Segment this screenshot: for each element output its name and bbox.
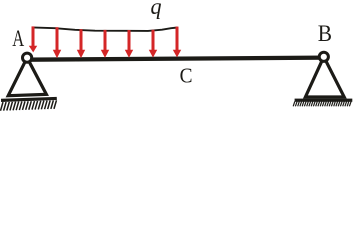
svg-text:C: C	[180, 65, 193, 88]
svg-text:A: A	[12, 26, 24, 51]
svg-text:q: q	[151, 0, 162, 19]
svg-text:B: B	[318, 20, 332, 46]
